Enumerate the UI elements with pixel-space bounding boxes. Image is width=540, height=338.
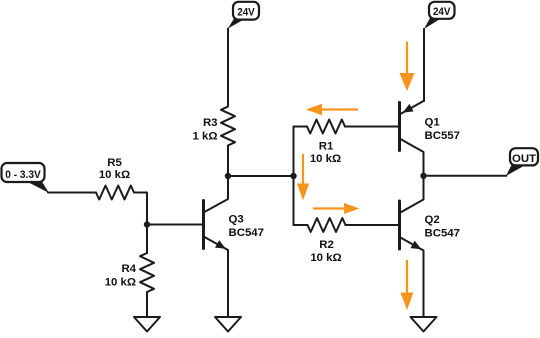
resistor R4: [105, 253, 154, 292]
wire R4 to ground: [146, 292, 148, 317]
wire R5 to node A: [134, 193, 147, 225]
transistor Q3 BC547: [204, 176, 264, 317]
svg-text:R5: R5: [107, 157, 122, 169]
svg-text:Q1: Q1: [425, 116, 441, 128]
svg-text:10 kΩ: 10 kΩ: [105, 277, 136, 289]
current arrow through R2 (right): [313, 203, 360, 214]
svg-text:24V: 24V: [237, 7, 255, 19]
svg-text:1 kΩ: 1 kΩ: [193, 130, 218, 142]
resistor R2: [294, 218, 400, 264]
svg-text:10 kΩ: 10 kΩ: [310, 153, 341, 165]
resistor R1: [294, 120, 400, 165]
svg-text:R2: R2: [319, 239, 334, 251]
node D output junction: [420, 173, 426, 179]
svg-text:BC547: BC547: [425, 227, 460, 239]
resistor R5: [96, 157, 134, 200]
transistor Q1 BC557: [400, 101, 460, 176]
resistor R3: [193, 107, 235, 146]
current arrow through R1 (left): [306, 104, 358, 116]
current arrow into Q1 emitter (down): [400, 42, 415, 92]
svg-text:24V: 24V: [433, 6, 451, 18]
power label 24V (left supply): [228, 2, 259, 29]
voltage source label "0 - 3.3V": [2, 163, 50, 193]
wire node B to bus node C: [228, 175, 294, 177]
svg-text:R3: R3: [203, 117, 218, 129]
ground (R4): [134, 317, 160, 332]
wire node D to OUT: [424, 175, 507, 177]
current arrow out of Q2 emitter (down): [401, 260, 414, 310]
node C junction: [290, 173, 296, 179]
node B junction: [225, 173, 231, 179]
ground (Q3 emitter): [215, 317, 241, 332]
svg-text:10 kΩ: 10 kΩ: [99, 169, 130, 181]
power label 24V (right supply): [424, 2, 455, 29]
svg-text:Q3: Q3: [229, 213, 244, 225]
svg-text:Q2: Q2: [425, 214, 440, 226]
svg-text:R4: R4: [121, 263, 136, 275]
wire R3 to node B: [227, 146, 229, 177]
ground (Q2 emitter): [411, 317, 437, 332]
wire node A to Q3 base: [147, 224, 203, 226]
output label OUT: [506, 148, 538, 176]
svg-text:BC557: BC557: [425, 130, 460, 142]
wire input to R5: [48, 192, 96, 194]
svg-text:0 - 3.3V: 0 - 3.3V: [5, 169, 41, 181]
wire 24V to R3: [227, 29, 229, 107]
svg-text:OUT: OUT: [512, 153, 536, 165]
current arrow down the bus between R1 and R2: [297, 154, 309, 201]
svg-text:10 kΩ: 10 kΩ: [310, 252, 341, 264]
svg-text:BC547: BC547: [229, 227, 264, 239]
wire bus C up to R1 and down to R2: [293, 127, 295, 226]
svg-text:R1: R1: [319, 141, 334, 153]
node A junction: [144, 221, 150, 227]
transistor Q2 BC547: [400, 176, 460, 317]
wire node A to R4: [146, 225, 148, 254]
wire 24V to Q1 emitter: [423, 29, 425, 101]
